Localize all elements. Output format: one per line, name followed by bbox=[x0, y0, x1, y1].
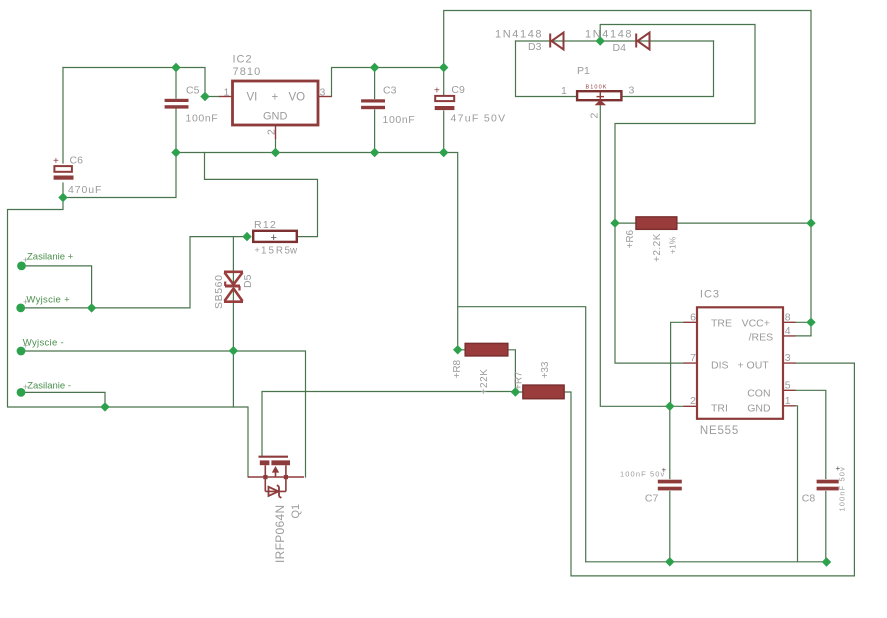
svg-text:+2.2K: +2.2K bbox=[652, 233, 663, 262]
svg-text:+R6: +R6 bbox=[625, 229, 636, 248]
svg-text:Zasilanie +: Zasilanie + bbox=[27, 252, 74, 263]
svg-text:3: 3 bbox=[629, 85, 635, 97]
svg-text:+ OUT: + OUT bbox=[738, 360, 770, 372]
svg-text:SB560: SB560 bbox=[213, 274, 225, 309]
svg-text:+: + bbox=[662, 466, 667, 475]
svg-text:+: + bbox=[434, 86, 440, 97]
svg-text:C8: C8 bbox=[802, 493, 816, 505]
svg-text:Wyjscie -: Wyjscie - bbox=[23, 338, 64, 349]
svg-text:DIS: DIS bbox=[711, 360, 729, 372]
svg-text:Wyjscie +: Wyjscie + bbox=[26, 295, 70, 306]
svg-text:R12: R12 bbox=[254, 219, 277, 231]
svg-text:+22K: +22K bbox=[479, 368, 490, 394]
svg-text:D3: D3 bbox=[528, 41, 542, 53]
svg-text:CON: CON bbox=[747, 388, 770, 400]
svg-text:1N4148: 1N4148 bbox=[585, 29, 633, 41]
svg-text:IRFP064N: IRFP064N bbox=[273, 505, 287, 563]
svg-text:D4: D4 bbox=[613, 42, 627, 54]
svg-text:5: 5 bbox=[785, 380, 791, 392]
svg-text:100nF: 100nF bbox=[383, 114, 416, 126]
svg-text:2: 2 bbox=[690, 395, 696, 407]
svg-text:+: + bbox=[271, 232, 277, 244]
svg-text:100nF 50v: 100nF 50v bbox=[620, 470, 665, 479]
svg-text:47uF 50V: 47uF 50V bbox=[451, 113, 507, 125]
svg-text:6: 6 bbox=[690, 312, 696, 324]
svg-text:1: 1 bbox=[785, 395, 791, 407]
svg-text:470uF: 470uF bbox=[68, 184, 102, 196]
svg-text:7810: 7810 bbox=[233, 66, 262, 78]
svg-text:5w: 5w bbox=[285, 246, 298, 257]
svg-text:B100K: B100K bbox=[586, 85, 608, 91]
svg-text:/RES: /RES bbox=[749, 332, 774, 344]
svg-text:+33: +33 bbox=[540, 361, 551, 378]
svg-text:1: 1 bbox=[561, 85, 567, 97]
svg-text:2: 2 bbox=[589, 113, 601, 119]
svg-text:NE555: NE555 bbox=[700, 425, 739, 437]
svg-text:P1: P1 bbox=[577, 65, 590, 77]
svg-text:4: 4 bbox=[785, 325, 791, 337]
svg-text:C7: C7 bbox=[645, 493, 659, 505]
svg-text:C5: C5 bbox=[186, 85, 200, 97]
svg-text:C3: C3 bbox=[383, 85, 397, 97]
svg-text:VI: VI bbox=[247, 92, 258, 104]
svg-text:+: + bbox=[53, 156, 59, 167]
svg-text:GND: GND bbox=[747, 403, 771, 415]
svg-text:8: 8 bbox=[785, 312, 791, 324]
svg-text:VO: VO bbox=[289, 92, 306, 104]
svg-text:C9: C9 bbox=[451, 84, 465, 96]
svg-text:+R8: +R8 bbox=[452, 359, 463, 378]
svg-text:IC3: IC3 bbox=[700, 289, 720, 301]
svg-text:TRE: TRE bbox=[711, 318, 732, 330]
svg-text:100nF: 100nF bbox=[186, 113, 219, 125]
svg-text:+: + bbox=[255, 245, 260, 255]
svg-text:+: + bbox=[836, 464, 841, 473]
svg-text:+: + bbox=[23, 297, 28, 307]
svg-text:+: + bbox=[23, 255, 28, 265]
svg-text:D5: D5 bbox=[242, 274, 254, 288]
svg-text:VCC+: VCC+ bbox=[742, 318, 770, 330]
svg-text:+: + bbox=[23, 382, 28, 392]
svg-text:15R: 15R bbox=[261, 246, 285, 257]
svg-text:+1%: +1% bbox=[668, 236, 678, 254]
svg-text:3: 3 bbox=[320, 87, 326, 99]
svg-text:TRI: TRI bbox=[711, 403, 728, 415]
svg-text:+: + bbox=[23, 341, 28, 351]
svg-text:Q1: Q1 bbox=[290, 504, 302, 519]
svg-text:3: 3 bbox=[785, 352, 791, 364]
svg-text:7: 7 bbox=[690, 352, 696, 364]
svg-text:2: 2 bbox=[266, 129, 278, 135]
svg-text:Zasilanie -: Zasilanie - bbox=[27, 381, 71, 392]
svg-text:IC2: IC2 bbox=[233, 54, 253, 66]
svg-text:C6: C6 bbox=[70, 155, 84, 167]
svg-text:+: + bbox=[272, 92, 279, 104]
svg-text:1N4148: 1N4148 bbox=[495, 29, 543, 41]
svg-text:+R7: +R7 bbox=[514, 371, 525, 390]
svg-text:1: 1 bbox=[224, 87, 230, 99]
svg-text:GND: GND bbox=[263, 111, 288, 123]
